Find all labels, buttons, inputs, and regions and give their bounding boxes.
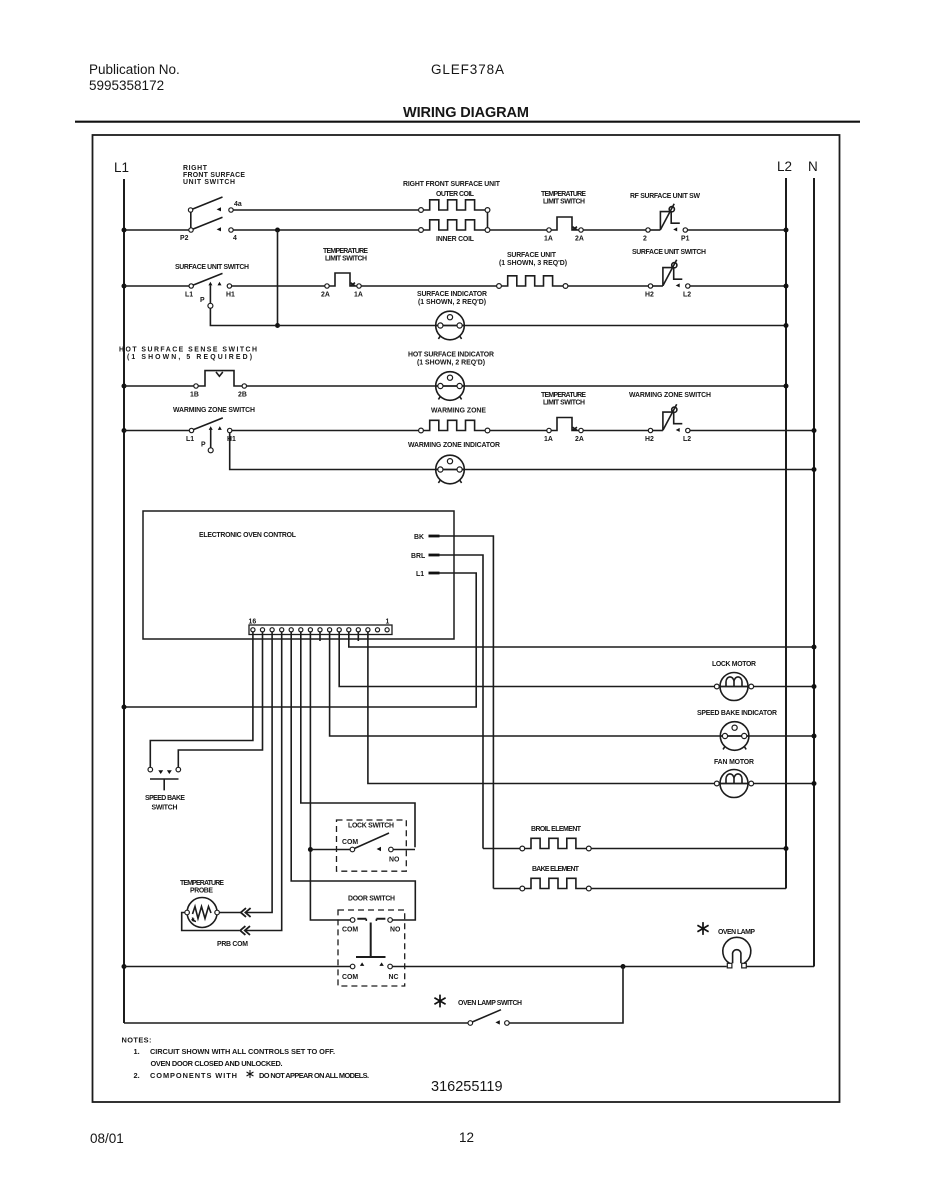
junction L2 broil — [784, 846, 789, 851]
svg-text:WARMING ZONE SWITCH: WARMING ZONE SWITCH — [629, 392, 711, 399]
diagram border frame — [93, 135, 840, 1102]
svg-text:P2: P2 — [180, 235, 189, 242]
label TEMPERATURE LIMIT SWITCH (row5) — [541, 392, 586, 407]
switch S6 surface unit switch (right thermal) — [648, 260, 690, 288]
svg-text:NO: NO — [390, 927, 401, 934]
wire pin10 to lock switch COM and door switch COM — [310, 632, 350, 920]
asterisk mark (oven lamp) — [697, 922, 708, 935]
switch S9 speed bake switch — [148, 767, 181, 790]
svg-text:1.: 1. — [134, 1047, 140, 1056]
label SURFACE INDICATOR (1 SHOWN, 2 REQ'D) — [417, 291, 487, 306]
junction surface indicator feed — [275, 323, 280, 328]
svg-text:H1: H1 — [226, 292, 235, 299]
junction row1 to surface indicator branch — [275, 228, 280, 233]
svg-text:UNIT SWITCH: UNIT SWITCH — [183, 179, 235, 186]
heating element R3 surface unit — [497, 276, 568, 289]
junction N pin6 wire — [812, 645, 817, 650]
svg-text:16: 16 — [249, 619, 257, 626]
switch S10 lock switch — [350, 833, 393, 852]
svg-text:PROBE: PROBE — [190, 888, 213, 895]
svg-text:BK: BK — [414, 534, 424, 541]
svg-text:2A: 2A — [575, 236, 584, 243]
wire pin14 to temperature probe — [246, 632, 272, 913]
svg-text:NC: NC — [389, 974, 399, 981]
svg-text:P: P — [200, 297, 205, 304]
svg-text:5995358172: 5995358172 — [89, 78, 164, 93]
wire BK riser to bake element — [493, 888, 520, 890]
wire pin16 to speed bake switch left — [150, 632, 253, 767]
junction L1 row2 — [122, 284, 127, 289]
wire pin12 to door switch NO — [291, 632, 415, 920]
electronic oven control U1 box — [143, 511, 454, 639]
lamp DS5 oven lamp — [723, 937, 751, 968]
svg-text:HOT SURFACE INDICATOR: HOT SURFACE INDICATOR — [408, 352, 494, 359]
junction L1 row1 — [122, 228, 127, 233]
junction L1 door switch COM row — [122, 964, 127, 969]
wire pin4 to fan motor — [368, 632, 814, 784]
wire pin13 to probe common — [246, 632, 282, 931]
svg-text:NO: NO — [389, 857, 400, 864]
svg-text:H2: H2 — [645, 292, 654, 299]
wire pin5 stub — [357, 632, 359, 641]
wire pin11 to lock switch NO — [301, 632, 415, 847]
svg-text:SWITCH: SWITCH — [152, 805, 178, 812]
svg-text:L1: L1 — [186, 436, 194, 443]
wire H1 branch down to warming zone indicator — [230, 433, 814, 470]
inline connector probe common (chevrons) — [240, 926, 250, 935]
switch S11a door switch upper contacts COM-NO — [350, 918, 392, 923]
label HOT SURFACE INDICATOR (1 SHOWN, 2 REQ'D) — [408, 352, 494, 367]
wire lock switch NO to riser — [393, 849, 415, 851]
wire warming zone element to temperature limit switch — [490, 430, 547, 432]
wire pin15 to speed bake switch right — [178, 632, 262, 767]
wire sense switch to hot surface indicator — [247, 385, 787, 387]
svg-text:N: N — [808, 159, 818, 174]
label SPEED BAKE SWITCH — [145, 795, 185, 812]
svg-text:2.: 2. — [134, 1071, 140, 1080]
svg-text:SURFACE INDICATOR: SURFACE INDICATOR — [417, 291, 487, 298]
svg-text:BRL: BRL — [411, 553, 425, 560]
svg-text:316255119: 316255119 — [431, 1079, 503, 1095]
svg-text:1: 1 — [386, 619, 390, 626]
switch S4 surface unit switch (left, with pilot P) — [189, 273, 232, 308]
indicator lamp DS3 warming zone indicator — [436, 455, 465, 484]
svg-text:P: P — [201, 442, 206, 449]
wire junction down to surface indicator row — [277, 230, 279, 326]
svg-text:NOTES:: NOTES: — [122, 1036, 152, 1045]
wire pin9 stub — [319, 632, 321, 641]
junction N row5 — [812, 428, 817, 433]
note 2 with asterisk — [134, 1070, 370, 1080]
inline connector to probe (chevrons) — [241, 908, 251, 917]
label HOT SURFACE SENSE SWITCH (1 SHOWN, 5 REQUIRED) — [119, 347, 257, 362]
wire L1 to right front surface unit switch P2 — [124, 229, 189, 231]
svg-text:L2: L2 — [777, 159, 792, 174]
motor M2 fan motor — [714, 770, 753, 798]
svg-text:1B: 1B — [190, 392, 199, 399]
wire L1 bus corner to oven lamp switch — [124, 1022, 468, 1024]
wire pin7 to lock motor — [339, 632, 814, 687]
svg-text:LIMIT SWITCH: LIMIT SWITCH — [325, 256, 367, 263]
svg-text:FRONT SURFACE: FRONT SURFACE — [183, 172, 245, 179]
svg-text:COM: COM — [342, 927, 358, 934]
svg-text:TEMPERATURE: TEMPERATURE — [323, 248, 368, 255]
svg-text:1A: 1A — [544, 236, 553, 243]
svg-text:H1: H1 — [227, 436, 236, 443]
wire broil element to L2 bus — [591, 848, 786, 850]
svg-text:SURFACE UNIT SWITCH: SURFACE UNIT SWITCH — [632, 249, 706, 256]
svg-text:Publication No.: Publication No. — [89, 62, 180, 77]
label SURFACE UNIT (1 SHOWN, 3 REQ'D) — [499, 252, 567, 267]
switch S12 oven lamp switch — [468, 1010, 509, 1026]
junction N lock motor — [812, 684, 817, 689]
svg-text:OVEN DOOR CLOSED AND UNLOCKED.: OVEN DOOR CLOSED AND UNLOCKED. — [151, 1059, 283, 1068]
svg-text:L1: L1 — [114, 160, 129, 175]
terminal L1 stub — [429, 572, 440, 575]
svg-text:WARMING ZONE INDICATOR: WARMING ZONE INDICATOR — [408, 442, 500, 449]
wire P1 to L2 bus — [688, 229, 786, 231]
connector J1 pins 16..1 — [251, 628, 389, 632]
switch S3 RF surface unit switch — [646, 204, 688, 232]
junction oven lamp switch branch — [621, 964, 626, 969]
junction L1 row4 — [122, 384, 127, 389]
lock switch S10 dashed enclosure — [337, 820, 407, 871]
wire BK to bake element (vertical riser) — [440, 536, 494, 889]
terminal BRL stub — [429, 554, 440, 557]
wire pilot P down to surface indicator row — [210, 308, 275, 325]
wire temp limit switch to RF surface unit switch — [583, 229, 646, 231]
svg-text:(1 SHOWN, 2 REQ'D): (1 SHOWN, 2 REQ'D) — [418, 299, 486, 306]
wire warming zone switch to N bus — [690, 430, 814, 432]
svg-text:LIMIT SWITCH: LIMIT SWITCH — [543, 199, 585, 206]
wire temp limit switch to warming zone thermal switch — [583, 430, 648, 432]
svg-text:(1 SHOWN, 3 REQ'D): (1 SHOWN, 3 REQ'D) — [499, 260, 567, 267]
svg-text:PRB COM: PRB COM — [217, 941, 248, 948]
wire temp limit switch to surface unit element — [361, 285, 497, 287]
L1 supply bus (left vertical) — [123, 179, 125, 1023]
switch S7 hot surface sense switch — [194, 371, 247, 389]
wire switch 4 to inner coil — [233, 229, 418, 231]
svg-text:SURFACE UNIT SWITCH: SURFACE UNIT SWITCH — [175, 264, 249, 271]
svg-text:L1: L1 — [185, 292, 193, 299]
label RIGHT FRONT SURFACE UNIT SWITCH — [183, 165, 245, 186]
heating element R6 bake element — [520, 878, 591, 891]
note 1 line 1 — [134, 1047, 336, 1056]
svg-text:GLEF378A: GLEF378A — [431, 62, 504, 77]
switch S14 warming zone switch (right thermal) — [648, 404, 690, 432]
svg-text:INNER COIL: INNER COIL — [436, 236, 474, 243]
svg-text:2: 2 — [643, 236, 647, 243]
junction L1 EOC feed — [122, 705, 127, 710]
wire joining outer and inner coil outputs — [487, 212, 489, 227]
wire EOC L1 terminal to L1 bus — [124, 573, 476, 707]
svg-text:L1: L1 — [416, 571, 424, 578]
svg-text:(1 SHOWN, 5 REQUIRED): (1 SHOWN, 5 REQUIRED) — [127, 354, 252, 361]
indicator lamp DS1 surface indicator — [436, 311, 465, 340]
wire surface unit to surface unit switch H2 — [568, 285, 648, 287]
heating element R4 warming zone — [419, 420, 490, 433]
wire probe left terminal loop to common — [182, 913, 240, 931]
wire switch 4a to outer coil — [233, 209, 418, 211]
connector J1 strip on EOC — [249, 625, 392, 635]
svg-text:4: 4 — [233, 235, 237, 242]
svg-text:12: 12 — [459, 1130, 474, 1145]
wire L1 to warming zone switch — [124, 430, 189, 432]
svg-text:WARMING ZONE: WARMING ZONE — [431, 408, 486, 415]
wire junction to surface indicator — [278, 325, 787, 327]
svg-text:2A: 2A — [575, 436, 584, 443]
svg-text:RIGHT: RIGHT — [183, 165, 208, 172]
svg-text:DOOR SWITCH: DOOR SWITCH — [348, 896, 395, 903]
document header: publication number — [89, 62, 180, 93]
svg-text:1A: 1A — [354, 292, 363, 299]
wire pin6 to N bus — [349, 632, 814, 647]
svg-text:CIRCUIT SHOWN WITH ALL CONTROL: CIRCUIT SHOWN WITH ALL CONTROLS SET TO O… — [150, 1047, 335, 1056]
svg-text:ELECTRONIC OVEN CONTROL: ELECTRONIC OVEN CONTROL — [199, 532, 296, 539]
wire pin8 to speed bake indicator — [330, 632, 814, 736]
svg-text:WARMING ZONE SWITCH: WARMING ZONE SWITCH — [173, 407, 255, 414]
svg-text:SPEED BAKE INDICATOR: SPEED BAKE INDICATOR — [697, 710, 777, 717]
switch S11b door switch lower contacts COM-NC — [350, 962, 392, 968]
svg-text:WIRING DIAGRAM: WIRING DIAGRAM — [403, 105, 529, 121]
junction N warming indicator — [812, 467, 817, 472]
wire door switch NC to oven lamp — [392, 966, 726, 968]
motor M1 lock motor — [714, 673, 753, 701]
junction lock switch COM feed — [308, 847, 313, 852]
svg-text:LOCK MOTOR: LOCK MOTOR — [712, 661, 756, 668]
junction L2 row2 — [784, 284, 789, 289]
wire oven lamp to N bus corner — [747, 966, 814, 968]
wire H1 to temperature limit switch (row2) — [232, 285, 325, 287]
svg-text:TEMPERATURE: TEMPERATURE — [180, 880, 224, 887]
wire junction to lock switch COM — [310, 849, 350, 851]
wire BRL to broil element (vertical riser) — [440, 555, 484, 849]
svg-text:H2: H2 — [645, 436, 654, 443]
svg-text:2A: 2A — [321, 292, 330, 299]
wire L1 to surface unit switch — [124, 285, 189, 287]
svg-text:OUTER COIL: OUTER COIL — [436, 191, 474, 198]
svg-text:BAKE ELEMENT: BAKE ELEMENT — [532, 866, 580, 873]
svg-text:SPEED BAKE: SPEED BAKE — [145, 795, 185, 802]
svg-text:TEMPERATURE: TEMPERATURE — [541, 392, 586, 399]
wire bake element to L2 bus end — [591, 888, 786, 890]
heating element R2 inner coil — [419, 220, 490, 233]
svg-text:DO NOT APPEAR ON ALL MODELS.: DO NOT APPEAR ON ALL MODELS. — [259, 1071, 369, 1080]
temperature probe RT1 — [185, 898, 241, 928]
wire coils to temperature limit switch 1A — [490, 229, 547, 231]
indicator lamp DS2 hot surface indicator — [436, 372, 465, 401]
svg-text:RIGHT FRONT SURFACE UNIT: RIGHT FRONT SURFACE UNIT — [403, 181, 501, 188]
svg-text:COMPONENTS WITH: COMPONENTS WITH — [150, 1071, 237, 1080]
junction N speed bake indicator — [812, 734, 817, 739]
junction L1 row5 — [122, 428, 127, 433]
svg-text:LIMIT SWITCH: LIMIT SWITCH — [543, 400, 585, 407]
label TEMPERATURE PROBE — [180, 880, 224, 895]
svg-text:FAN MOTOR: FAN MOTOR — [714, 759, 754, 766]
L2 supply bus (right vertical) — [785, 178, 787, 889]
svg-text:BROIL ELEMENT: BROIL ELEMENT — [531, 826, 582, 833]
asterisk mark (oven lamp switch) — [434, 995, 445, 1008]
svg-text:(1 SHOWN, 2 REQ'D): (1 SHOWN, 2 REQ'D) — [417, 360, 485, 367]
svg-text:HOT SURFACE SENSE SWITCH: HOT SURFACE SENSE SWITCH — [119, 347, 257, 354]
svg-text:08/01: 08/01 — [90, 1131, 124, 1146]
label TEMPERATURE LIMIT SWITCH (row1) — [541, 191, 586, 206]
heating element R5 broil element — [520, 838, 591, 851]
svg-text:L2: L2 — [683, 436, 691, 443]
switch S2 temperature limit switch (row1) — [547, 217, 583, 232]
svg-text:1A: 1A — [544, 436, 553, 443]
junction L2 row4 — [784, 384, 789, 389]
svg-text:L2: L2 — [683, 292, 691, 299]
svg-text:SURFACE UNIT: SURFACE UNIT — [507, 252, 557, 259]
svg-text:P1: P1 — [681, 236, 690, 243]
svg-text:COM: COM — [342, 839, 358, 846]
svg-text:4a: 4a — [234, 201, 242, 208]
junction N fan motor — [812, 781, 817, 786]
junction L2 row1 — [784, 228, 789, 233]
svg-text:OVEN LAMP SWITCH: OVEN LAMP SWITCH — [458, 1000, 522, 1007]
indicator lamp DS4 speed bake indicator — [720, 722, 749, 751]
heating element R1 outer coil — [419, 200, 490, 213]
terminal BK stub — [429, 535, 440, 538]
wire BRL riser to broil element — [483, 848, 520, 850]
junction L2 row3 — [784, 323, 789, 328]
svg-text:LOCK SWITCH: LOCK SWITCH — [348, 823, 394, 830]
wire oven lamp switch to NC row — [509, 967, 623, 1024]
switch S8 warming zone switch — [189, 418, 232, 453]
svg-text:RF SURFACE UNIT SW: RF SURFACE UNIT SW — [630, 193, 700, 200]
svg-text:COM: COM — [342, 974, 358, 981]
switch S5 temperature limit switch (row2) — [325, 273, 361, 288]
svg-text:2B: 2B — [238, 392, 247, 399]
switch S13 temperature limit switch (row5) — [547, 418, 583, 433]
wire L1 to door switch COM (lower) — [124, 966, 350, 968]
svg-text:TEMPERATURE: TEMPERATURE — [541, 191, 586, 198]
wire switch L2 to L2 bus — [690, 285, 786, 287]
door switch plunger — [356, 923, 386, 958]
N neutral bus (right vertical) — [813, 178, 815, 967]
title rule — [75, 121, 860, 123]
switch S1 right front surface unit switch (DPST) — [188, 197, 233, 232]
label TEMPERATURE LIMIT SWITCH (row2) — [323, 248, 368, 263]
wire L1 to hot surface sense switch — [124, 385, 194, 387]
wire H1 to warming zone element — [232, 430, 419, 432]
svg-text:OVEN LAMP: OVEN LAMP — [718, 929, 755, 936]
door switch S11 dashed enclosure — [338, 910, 405, 986]
